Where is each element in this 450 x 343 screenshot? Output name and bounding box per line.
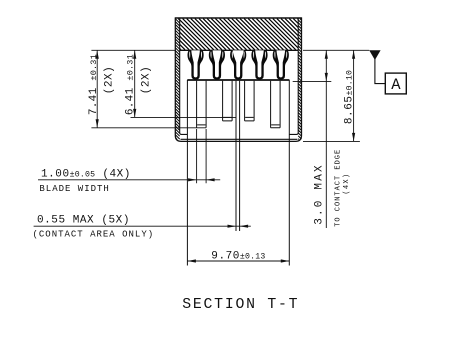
dimension line 7.41 <box>96 50 98 128</box>
left wall inner line and cavity floor <box>180 18 188 134</box>
svg-text:3.0 MAX: 3.0 MAX <box>313 163 325 225</box>
dim text 7.41 qty <box>103 66 115 94</box>
wafer box right edge and 9.70 extension line <box>288 80 290 266</box>
svg-text:(2X): (2X) <box>141 66 153 94</box>
mating face line <box>180 49 299 51</box>
center contact stem lines and 0.55 extension lines <box>236 81 240 231</box>
dim text 3.0 max <box>313 163 325 225</box>
arrows 0.55 <box>228 225 249 228</box>
datum A frame <box>385 73 406 94</box>
extension line housing bottom right <box>303 140 360 142</box>
arrows 1.00 <box>188 178 215 181</box>
note to contact edge <box>335 149 343 227</box>
contact C1 tulip <box>188 50 204 79</box>
dim text 6.41 <box>124 54 136 115</box>
svg-text:(4X): (4X) <box>343 173 351 195</box>
dimension line 3.0 max <box>325 50 327 228</box>
wafer box top line <box>187 79 289 81</box>
left shroud wall hatch <box>175 19 179 140</box>
housing outer contour <box>175 17 301 141</box>
dimension line 8.65 <box>353 50 355 141</box>
contact C5 tulip <box>273 50 289 79</box>
leader line 0.55 <box>34 225 251 227</box>
housing top cap hatched block <box>180 19 299 50</box>
blade slot S2 <box>223 81 233 121</box>
extension line contact edge <box>293 80 332 82</box>
blade width extension lines <box>197 129 207 183</box>
dimension line 9.70 <box>187 260 289 262</box>
svg-text:SECTION T-T: SECTION T-T <box>182 297 299 313</box>
dim text 7.41 <box>88 54 100 115</box>
wafer box left edge and 9.70 extension line <box>186 80 188 266</box>
dimension line 6.41 <box>134 50 136 117</box>
blade slot S3 <box>245 81 255 121</box>
svg-text:A: A <box>391 76 401 94</box>
contact C3 center tulip sectioned <box>230 50 246 79</box>
leader line 1.00 <box>38 179 220 181</box>
dim text 6.41 qty <box>141 66 153 94</box>
housing top edge <box>175 17 301 19</box>
contact C4 tulip <box>251 50 267 79</box>
contact C2 tulip <box>209 50 225 79</box>
note 4x <box>343 173 351 195</box>
blade slot S4 <box>271 81 281 128</box>
housing floor inner line <box>181 138 298 140</box>
svg-text:TO CONTACT EDGE: TO CONTACT EDGE <box>335 149 343 227</box>
right shroud wall hatch <box>298 19 301 140</box>
right wall inner line and cavity floor <box>289 18 298 134</box>
svg-text:BLADE WIDTH: BLADE WIDTH <box>39 184 109 194</box>
svg-text:8.65±0.10: 8.65±0.10 <box>343 70 355 124</box>
extension line mating face left <box>91 49 175 51</box>
svg-text:(2X): (2X) <box>103 66 115 94</box>
svg-text:1.00±0.05 (4X): 1.00±0.05 (4X) <box>41 168 131 180</box>
svg-text:0.55 MAX (5X): 0.55 MAX (5X) <box>37 214 130 226</box>
svg-text:6.41 ±0.31: 6.41 ±0.31 <box>124 54 136 115</box>
svg-text:(CONTACT AREA ONLY): (CONTACT AREA ONLY) <box>33 230 155 240</box>
blade slot S1 <box>197 81 207 128</box>
svg-text:9.70±0.13: 9.70±0.13 <box>211 250 265 262</box>
extension line mating face right <box>303 49 369 51</box>
dim text 8.65 <box>343 70 355 124</box>
svg-text:7.41 ±0.31: 7.41 ±0.31 <box>88 54 100 115</box>
datum A leader <box>375 59 385 84</box>
extension line 7.41 depth <box>91 127 206 129</box>
extension line 6.41 depth <box>131 116 237 118</box>
datum A triangle <box>369 50 380 60</box>
